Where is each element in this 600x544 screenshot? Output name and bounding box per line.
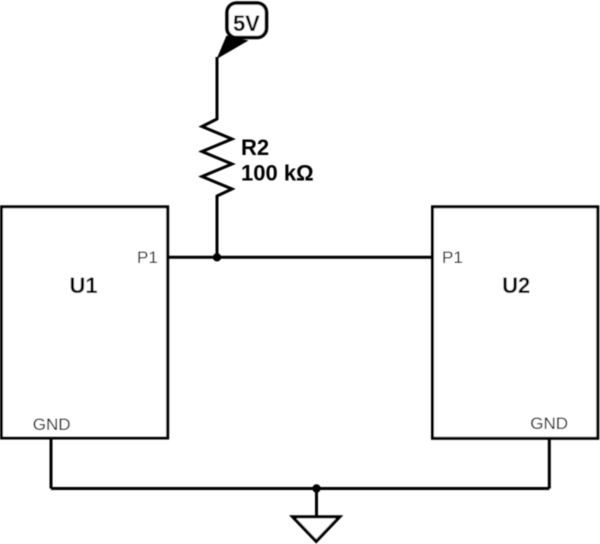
- wire U1 GND pin down: [50, 438, 53, 489]
- svg-text:5V: 5V: [233, 11, 260, 36]
- power source 5V badge: [227, 3, 267, 38]
- wire 5V to resistor: [216, 57, 219, 120]
- wire node A to U1 pin P1: [166, 256, 217, 259]
- svg-text:P1: P1: [137, 248, 158, 267]
- svg-text:R2: R2: [241, 135, 269, 160]
- IC U1 box: [2, 207, 168, 438]
- svg-text:P1: P1: [442, 248, 463, 267]
- IC U2 box: [433, 207, 598, 438]
- svg-text:100 kΩ: 100 kΩ: [241, 160, 314, 185]
- wire bottom ground bus: [51, 487, 549, 490]
- resistor R2: [202, 119, 232, 196]
- node A junction dot: [213, 253, 221, 261]
- svg-text:GND: GND: [530, 414, 568, 433]
- wire node A to U2 pin P1: [217, 256, 434, 259]
- wire ground node to ground symbol: [315, 489, 318, 517]
- ground symbol: [293, 517, 340, 542]
- power source 5V tail: [217, 36, 249, 60]
- svg-text:GND: GND: [33, 415, 71, 434]
- ground node junction dot: [312, 484, 320, 492]
- wire U2 GND pin down: [548, 438, 551, 488]
- svg-text:U2: U2: [502, 273, 530, 298]
- svg-text:U1: U1: [69, 273, 97, 298]
- wire resistor to node A: [216, 195, 219, 257]
